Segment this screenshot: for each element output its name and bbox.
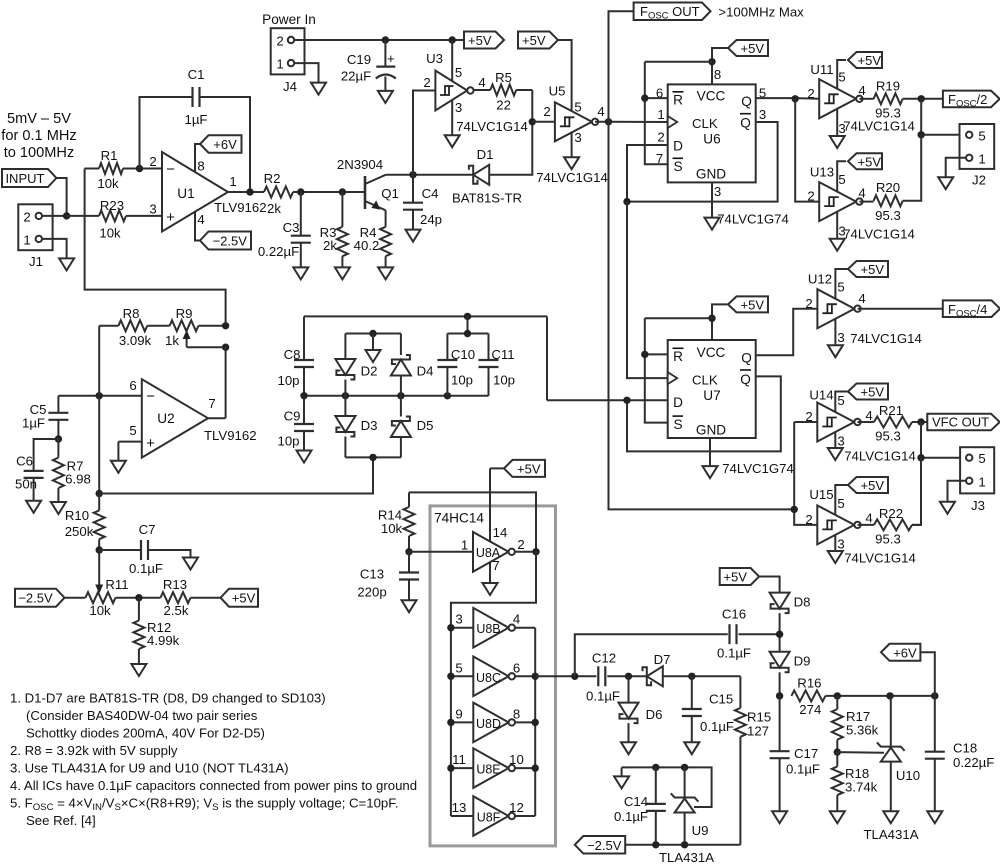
U2 pin5 wire	[118, 441, 141, 443]
svg-text:CLK: CLK	[692, 116, 718, 131]
svg-text:U8D: U8D	[476, 717, 501, 731]
resistor R9 pot	[170, 320, 199, 331]
R11 wiper arrow	[98, 550, 100, 587]
U11 output wire	[859, 98, 873, 100]
resistor R14	[408, 492, 410, 507]
wire down to R22	[912, 458, 921, 525]
U1 pin 4 -2.5V	[195, 212, 200, 241]
wire C10 C11 top	[447, 333, 488, 335]
resistor R20	[874, 195, 903, 206]
U7 Q output wire to U12	[756, 309, 818, 356]
node C7	[96, 546, 103, 553]
ground bridge	[366, 350, 381, 362]
U14 pin5 +5V	[835, 392, 848, 413]
ground C18	[927, 811, 942, 823]
svg-text:4: 4	[865, 408, 872, 423]
U12 output wire	[858, 308, 943, 310]
svg-text:95.3: 95.3	[875, 106, 901, 121]
svg-text:TLV9162: TLV9162	[214, 200, 267, 215]
resistor R21	[874, 417, 912, 428]
svg-text:+5V: +5V	[858, 154, 882, 169]
svg-text:95.3: 95.3	[875, 208, 901, 223]
wire bridge bottom	[345, 456, 401, 458]
svg-text:R9: R9	[176, 306, 193, 321]
svg-text:5: 5	[837, 280, 844, 295]
svg-text:8: 8	[513, 706, 520, 721]
svg-text:R2: R2	[264, 171, 281, 186]
capacitor C5	[57, 396, 59, 413]
wire R5 right	[516, 89, 532, 91]
svg-text:4: 4	[858, 291, 865, 306]
node U8A out	[532, 548, 539, 555]
ground R4	[378, 267, 393, 279]
wire Fosc long vertical	[609, 122, 795, 510]
svg-text:5: 5	[837, 496, 844, 511]
node U1 output	[246, 188, 253, 195]
U3 pin 3 ground	[451, 101, 453, 136]
U7 R S tie	[645, 353, 668, 355]
svg-text:U5: U5	[549, 84, 566, 99]
svg-text:2: 2	[657, 130, 664, 145]
svg-text:95.3: 95.3	[875, 429, 901, 444]
node C8 C9	[300, 392, 307, 399]
svg-text:74LVC1G14: 74LVC1G14	[843, 227, 915, 242]
wire R11 R13	[116, 597, 161, 599]
ground C7	[183, 558, 198, 570]
resistor R5	[490, 85, 516, 96]
flag +6V U1	[200, 135, 242, 153]
ground R3	[335, 267, 350, 279]
U9 ground rail	[622, 767, 712, 807]
svg-text:74LVC1G14: 74LVC1G14	[850, 331, 922, 346]
U15 pin5 +5V	[835, 485, 848, 516]
svg-text:3.74k: 3.74k	[845, 780, 878, 795]
svg-text:2: 2	[805, 409, 812, 424]
svg-text:U15: U15	[809, 487, 833, 502]
ground C4	[406, 230, 421, 242]
wire +5V to D8	[759, 577, 780, 593]
svg-text:3: 3	[837, 330, 844, 345]
capacitor C8	[303, 316, 305, 360]
svg-text:5: 5	[837, 393, 844, 408]
resistor R16	[791, 690, 825, 701]
svg-text:C10: C10	[451, 347, 475, 362]
svg-text:10: 10	[509, 752, 524, 767]
wire R19 to flag	[903, 98, 943, 100]
wire to C16	[575, 634, 728, 676]
inverter U8F	[451, 815, 473, 817]
svg-text:8: 8	[714, 67, 721, 82]
svg-text:Q: Q	[740, 116, 751, 131]
U6 D loop from Qbar	[627, 122, 778, 202]
U7 GND wire	[709, 438, 711, 466]
svg-text:8: 8	[197, 159, 204, 174]
node bridge top center	[369, 330, 376, 337]
node R12	[135, 594, 142, 601]
svg-text:C17: C17	[794, 746, 818, 761]
U8A pin14 +5V	[489, 468, 491, 542]
wire R2 to Q1 base	[293, 191, 365, 193]
flag +5V U14	[848, 384, 888, 400]
wire C16 to D8 D9 node	[739, 633, 780, 635]
resistor R17	[836, 696, 838, 709]
box 74HC14 gray outline	[430, 506, 556, 846]
svg-text:D: D	[673, 395, 683, 410]
svg-text:74LVC1G74: 74LVC1G74	[722, 461, 794, 476]
svg-text:+5V: +5V	[741, 297, 765, 312]
flag +5V D8	[720, 568, 759, 585]
svg-text:5: 5	[455, 65, 462, 80]
node C18 top	[931, 692, 938, 699]
node Q1 collector	[409, 171, 416, 178]
wire feedback from U2 output to R1	[85, 169, 226, 326]
svg-text:C3: C3	[283, 220, 300, 235]
ground U14	[828, 448, 843, 460]
inverter U8C	[451, 675, 473, 677]
wire R9 right	[198, 325, 225, 327]
svg-text:J4: J4	[283, 79, 297, 94]
svg-text:2: 2	[807, 189, 814, 204]
svg-text:2: 2	[276, 34, 283, 49]
svg-text:10p: 10p	[277, 434, 299, 449]
svg-text:R21: R21	[879, 403, 903, 418]
ground U12	[828, 345, 843, 357]
wire INPUT to J1 node	[56, 178, 66, 216]
wire R1 to U1 pin2	[123, 168, 162, 170]
svg-text:R13: R13	[163, 577, 187, 592]
svg-text:2N3904: 2N3904	[337, 157, 383, 172]
svg-text:3: 3	[574, 130, 581, 145]
svg-text:5: 5	[838, 172, 845, 187]
ground J2 pin1	[938, 177, 953, 189]
wire R21 to flag	[912, 421, 927, 423]
inverter U11 74LVC1G14	[819, 79, 856, 118]
node U10 top	[886, 692, 893, 699]
svg-text:R: R	[673, 93, 683, 108]
ground J3 pin1	[940, 502, 955, 514]
diode D6	[628, 676, 630, 702]
resistor R4	[385, 210, 387, 227]
svg-text:S: S	[673, 417, 682, 432]
ground U5	[564, 157, 579, 169]
svg-text:C9: C9	[284, 409, 301, 424]
ground R12	[131, 664, 146, 676]
svg-text:Q: Q	[741, 350, 752, 365]
node U2 inv input	[96, 392, 103, 399]
svg-text:U13: U13	[810, 165, 834, 180]
svg-text:−2.5V: −2.5V	[587, 838, 622, 853]
ground U13	[830, 239, 845, 251]
svg-text:4: 4	[478, 75, 485, 90]
op-amp U2	[142, 379, 208, 457]
svg-text:R1: R1	[101, 148, 118, 163]
svg-text:INPUT: INPUT	[5, 171, 44, 186]
flag -2.5V R11	[15, 589, 65, 607]
svg-text:0.1µF: 0.1µF	[717, 646, 751, 661]
node Fosc/2	[918, 95, 925, 102]
svg-text:2k: 2k	[267, 201, 281, 216]
svg-text:50n: 50n	[15, 477, 37, 492]
ground C3	[293, 267, 308, 279]
U12 pin5 +5V	[835, 269, 848, 299]
U7 D input wire from bridge	[547, 399, 668, 401]
wire ref to U10	[837, 751, 884, 754]
ground U7	[703, 466, 718, 478]
svg-text:+5V: +5V	[517, 461, 541, 476]
ground C15	[684, 742, 699, 754]
wire R8 left vertical	[98, 326, 100, 494]
svg-text:S: S	[673, 159, 682, 174]
capacitor C14	[655, 767, 657, 804]
svg-text:+5V: +5V	[723, 570, 747, 585]
resistor R12	[138, 598, 140, 621]
node C16 right	[776, 631, 783, 638]
svg-text:D5: D5	[417, 418, 434, 433]
svg-text:10p: 10p	[493, 373, 515, 388]
svg-text:2: 2	[805, 512, 812, 527]
flag +5V U6	[728, 40, 768, 56]
svg-text:−2.5V: −2.5V	[213, 234, 248, 249]
flag +5V R13	[221, 589, 259, 607]
wire U2 output vertical	[225, 347, 227, 418]
U13 pin5 +5V	[837, 161, 846, 192]
node U5 input	[529, 118, 536, 125]
ground J4 pin1	[311, 83, 326, 95]
svg-text:1: 1	[23, 233, 30, 248]
svg-text:C15: C15	[709, 692, 733, 707]
svg-text:95.3: 95.3	[875, 532, 901, 547]
svg-text:U8C: U8C	[476, 671, 501, 685]
svg-text:U7: U7	[703, 388, 720, 403]
svg-text:C11: C11	[491, 347, 514, 362]
svg-text:2. R8 = 3.92k with 5V supply: 2. R8 = 3.92k with 5V supply	[10, 743, 178, 758]
capacitor C7	[99, 549, 141, 551]
node R9 out	[222, 322, 229, 329]
diode D4	[400, 334, 402, 356]
flip-flop U7 74LVC1G74	[668, 340, 756, 438]
connector J2	[960, 124, 995, 169]
svg-text:22µF: 22µF	[341, 69, 371, 84]
ground bridge top	[372, 334, 374, 351]
svg-text:5: 5	[978, 128, 985, 143]
svg-text:4.99k: 4.99k	[147, 633, 180, 648]
capacitor C16	[728, 624, 730, 644]
ground C19	[378, 91, 393, 103]
wire input rail U14 U15	[794, 422, 817, 525]
capacitor C9	[303, 396, 305, 424]
svg-text:74LVC1G14: 74LVC1G14	[844, 449, 916, 464]
svg-text:4: 4	[197, 212, 204, 227]
svg-text:5: 5	[838, 70, 845, 85]
ground U11	[830, 136, 845, 148]
svg-text:5: 5	[455, 660, 462, 675]
svg-text:D6: D6	[646, 707, 663, 722]
U14 pin3 ground	[834, 432, 836, 448]
flip-flop U6 74LVC1G74	[668, 84, 756, 182]
U3 output wire	[474, 89, 491, 91]
svg-text:U3: U3	[426, 51, 443, 66]
output rail	[534, 628, 536, 816]
svg-text:2: 2	[807, 86, 814, 101]
flag +5V rail	[464, 32, 504, 49]
svg-text:10p: 10p	[451, 373, 473, 388]
wire node to J3	[921, 422, 966, 458]
svg-text:R19: R19	[876, 79, 900, 94]
svg-text:2: 2	[543, 104, 550, 119]
ground R18	[830, 811, 845, 823]
wire flag to R11	[65, 597, 86, 599]
capacitor C15	[691, 676, 693, 709]
svg-text:+5V: +5V	[861, 385, 885, 400]
svg-text:BAT81S-TR: BAT81S-TR	[452, 191, 522, 206]
svg-text:VCC: VCC	[697, 345, 726, 360]
ground D6	[621, 742, 636, 754]
node R9 wiper	[222, 344, 229, 351]
resistor R8	[99, 325, 118, 327]
INPUT flag	[2, 169, 56, 187]
node U9 cathode	[681, 764, 688, 771]
svg-text:U8B: U8B	[476, 622, 500, 636]
svg-text:13: 13	[452, 800, 467, 815]
node D4 D5	[397, 392, 404, 399]
svg-text:220p: 220p	[357, 585, 386, 600]
svg-text:4: 4	[858, 83, 865, 98]
node Fosc	[605, 118, 612, 125]
capacitor C6	[34, 439, 59, 471]
U15 pin3 ground	[834, 535, 836, 552]
svg-text:2.5k: 2.5k	[164, 603, 189, 618]
capacitor C3	[300, 192, 302, 236]
svg-text:J3: J3	[971, 498, 985, 513]
node R17 top	[834, 692, 841, 699]
wire bridge inner top	[345, 333, 401, 335]
node U14 U15 input	[791, 506, 798, 513]
inverter U12 74LVC1G14	[817, 289, 854, 328]
U13 output wire	[859, 201, 873, 203]
flag -2.5V bottom	[575, 836, 625, 854]
svg-text:3: 3	[714, 184, 721, 199]
capacitor C19 22uF	[384, 40, 386, 66]
ground U6	[705, 218, 720, 230]
svg-text:+5V: +5V	[861, 262, 885, 277]
diode D2	[344, 334, 346, 360]
svg-text:C14: C14	[624, 794, 648, 809]
svg-text:R: R	[673, 349, 683, 364]
svg-text:6.98: 6.98	[65, 472, 91, 487]
svg-text:10k: 10k	[97, 176, 119, 191]
resistor R11 pot	[86, 592, 116, 603]
svg-text:9: 9	[455, 706, 462, 721]
svg-text:0.22µF: 0.22µF	[258, 244, 299, 259]
svg-text:3: 3	[455, 612, 462, 627]
svg-text:5: 5	[574, 100, 581, 115]
diode D5	[400, 396, 402, 417]
svg-text:+: +	[387, 51, 395, 66]
svg-text:274: 274	[799, 702, 821, 717]
svg-text:6: 6	[513, 660, 520, 675]
capacitor C18	[934, 696, 936, 752]
diode D1 BAT81S-TR	[473, 165, 489, 185]
svg-text:4: 4	[865, 511, 872, 526]
transistor Q1 2N3904	[364, 176, 367, 209]
svg-text:D8: D8	[794, 595, 811, 610]
svg-text:1: 1	[461, 538, 468, 553]
U1 pin 8 +6V	[195, 144, 200, 172]
svg-text:10k: 10k	[99, 226, 121, 241]
inverter U13 74LVC1G14	[819, 182, 856, 221]
svg-text:+5V: +5V	[468, 33, 492, 48]
svg-text:74LVC1G14: 74LVC1G14	[843, 119, 915, 134]
svg-text:3.09k: 3.09k	[119, 333, 152, 348]
svg-text:R11: R11	[105, 577, 128, 592]
svg-text:3: 3	[837, 537, 844, 552]
U3 pin 5 wire	[451, 40, 453, 81]
svg-text:+: +	[166, 209, 175, 226]
wire D7 to R15 top	[663, 675, 741, 677]
node C10	[444, 392, 451, 399]
svg-text:D3: D3	[361, 418, 378, 433]
svg-text:TLV9162: TLV9162	[204, 428, 257, 443]
diode D7	[647, 666, 663, 686]
svg-text:74HC14: 74HC14	[434, 511, 484, 526]
inverter U15 74LVC1G14	[817, 505, 854, 544]
resistor R15	[739, 676, 741, 708]
svg-text:U9: U9	[692, 823, 709, 838]
wire U8A out to input rail	[451, 552, 536, 816]
svg-text:See Ref. [4]: See Ref. [4]	[26, 813, 96, 828]
svg-text:C18: C18	[953, 741, 977, 756]
svg-text:Q: Q	[741, 94, 752, 109]
svg-text:R10: R10	[65, 508, 89, 523]
wire R1 left	[85, 168, 99, 170]
capacitor C1 feedback	[140, 97, 193, 169]
inverter U8A	[409, 551, 473, 553]
svg-text:12: 12	[509, 800, 524, 815]
svg-text:14: 14	[493, 525, 508, 540]
inverter U5 74LVC1G14	[532, 121, 555, 123]
svg-text:2: 2	[517, 537, 524, 552]
node U7 R tie	[641, 351, 648, 358]
node VFC OUT	[917, 418, 924, 425]
svg-text:127: 127	[747, 724, 769, 739]
capacitor C4	[412, 175, 414, 203]
ground C13	[402, 600, 417, 612]
svg-text:3: 3	[455, 100, 462, 115]
capacitor C10	[446, 334, 448, 361]
svg-text:U1: U1	[177, 186, 194, 201]
svg-text:3: 3	[149, 202, 156, 217]
ground C17	[772, 811, 787, 823]
U2 output wire	[208, 417, 226, 419]
wire +5V to U5 pin5	[558, 40, 572, 113]
svg-text:74LVC1G74: 74LVC1G74	[717, 212, 789, 227]
capacitor C17	[779, 696, 781, 751]
svg-text:D1: D1	[477, 147, 494, 162]
node U1 inverting input	[136, 165, 143, 172]
resistor R10	[98, 494, 100, 511]
resistor R2	[264, 187, 293, 198]
svg-text:74LVC1G14: 74LVC1G14	[844, 551, 916, 566]
svg-text:+5V: +5V	[522, 33, 546, 48]
svg-text:0.1µF: 0.1µF	[700, 719, 734, 734]
node J2 pin5	[918, 131, 925, 138]
resistor R3	[341, 192, 343, 227]
flag +5V U13	[848, 153, 882, 169]
svg-text:C8: C8	[284, 347, 301, 362]
svg-text:−: −	[146, 388, 155, 405]
svg-text:+6V: +6V	[213, 137, 237, 152]
U8A output wire	[515, 551, 536, 553]
